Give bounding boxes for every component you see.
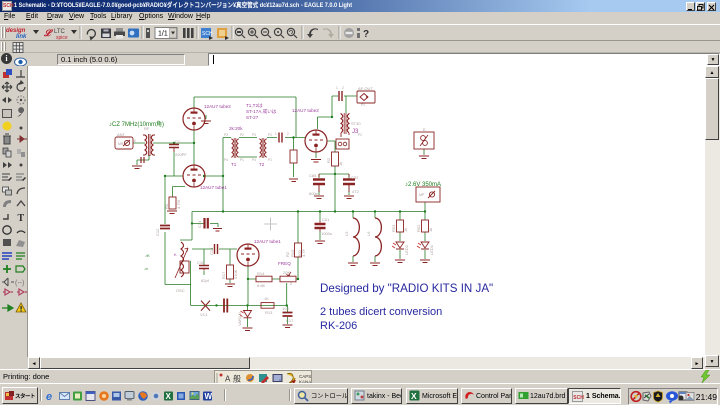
- svg-text:VAR1.0: VAR1.0: [237, 312, 242, 326]
- svg-text:2: 2: [342, 86, 344, 90]
- svg-text:C17: C17: [286, 318, 294, 323]
- svg-text:X: X: [411, 391, 417, 401]
- svg-text:P2: P2: [268, 133, 272, 137]
- svg-text:C51: C51: [322, 217, 330, 222]
- svg-text:1k: 1k: [428, 228, 433, 232]
- svg-text:MR: MR: [118, 142, 124, 146]
- svg-text:link: link: [16, 34, 27, 40]
- svg-text:K: K: [174, 252, 177, 257]
- svg-text:L6: L6: [366, 231, 371, 236]
- svg-text:OSC: OSC: [176, 288, 185, 293]
- svg-text:12AU7 tube1: 12AU7 tube1: [254, 239, 281, 244]
- svg-text:1: 1: [275, 132, 277, 136]
- svg-text:472: 472: [352, 189, 359, 194]
- svg-text:R13: R13: [265, 310, 273, 315]
- svg-text:P1: P1: [268, 158, 272, 162]
- svg-text:?: ?: [363, 29, 369, 40]
- svg-text:2: 2: [287, 132, 289, 136]
- svg-text:♪2.6V 350mA: ♪2.6V 350mA: [405, 182, 441, 188]
- svg-text:♪K: ♪K: [145, 253, 150, 258]
- svg-text:600p: 600p: [309, 191, 319, 196]
- svg-text:R17: R17: [221, 271, 226, 279]
- svg-text:C14: C14: [209, 247, 214, 255]
- svg-text:R52: R52: [416, 224, 421, 232]
- svg-text:R53: R53: [391, 224, 396, 232]
- svg-text:12AU7 tube1: 12AU7 tube1: [200, 185, 227, 190]
- svg-text:P3: P3: [224, 133, 228, 137]
- svg-text:T2: T2: [259, 162, 265, 167]
- svg-text:T: T: [18, 213, 25, 224]
- svg-text:P3: P3: [252, 133, 256, 137]
- svg-text:C1: C1: [175, 139, 181, 144]
- svg-text:P2: P2: [358, 133, 362, 137]
- svg-text:LED2: LED2: [404, 244, 409, 255]
- svg-text:R2: R2: [326, 157, 331, 163]
- svg-text:510K: 510K: [233, 269, 238, 279]
- svg-text:C16: C16: [197, 260, 205, 265]
- svg-text:4.7F: 4.7F: [301, 248, 306, 257]
- svg-text:CAPS: CAPS: [299, 374, 311, 379]
- svg-text:12AU7 tube2: 12AU7 tube2: [204, 104, 231, 109]
- svg-text:C13: C13: [197, 220, 202, 228]
- svg-text:SCH: SCH: [573, 395, 584, 401]
- svg-text:1k: 1k: [403, 228, 408, 232]
- svg-text:ST30: ST30: [351, 121, 361, 126]
- svg-text:(--): (--): [15, 280, 24, 287]
- svg-text:AF-OUT: AF-OUT: [358, 86, 373, 91]
- svg-text:RF: RF: [144, 126, 150, 131]
- svg-text:20K: 20K: [283, 270, 290, 275]
- svg-text:P4: P4: [252, 158, 256, 162]
- svg-text:♪CZ 7MHz(10mm角): ♪CZ 7MHz(10mm角): [109, 120, 164, 128]
- svg-text:4.7M: 4.7M: [176, 200, 181, 209]
- svg-text:2k:20k: 2k:20k: [229, 126, 243, 131]
- svg-text:12AU7 tube2: 12AU7 tube2: [292, 108, 319, 113]
- svg-text:ANT: ANT: [117, 132, 126, 137]
- svg-text:1/1: 1/1: [158, 31, 168, 38]
- svg-text:SCH: SCH: [202, 31, 213, 37]
- svg-text:X: X: [166, 392, 172, 401]
- svg-text:W: W: [205, 392, 213, 401]
- svg-text:RK-206: RK-206: [320, 320, 357, 332]
- svg-text:P2: P2: [240, 133, 244, 137]
- svg-text:e: e: [46, 391, 52, 403]
- svg-text:6: 6: [134, 139, 136, 143]
- svg-text:R19: R19: [290, 249, 295, 257]
- svg-text:LED1: LED1: [429, 244, 434, 255]
- svg-text:ST-17A,或いは: ST-17A,或いは: [246, 108, 277, 115]
- svg-text:C65: C65: [309, 173, 317, 178]
- svg-text:P1: P1: [240, 158, 244, 162]
- svg-text:般: 般: [233, 374, 241, 384]
- svg-text:1k: 1k: [338, 162, 343, 166]
- svg-text:𝓛: 𝓛: [43, 28, 54, 38]
- svg-text:R14: R14: [257, 271, 265, 276]
- svg-text:1: 1: [336, 86, 338, 90]
- svg-text:R1: R1: [164, 203, 169, 209]
- svg-text:VC1: VC1: [200, 312, 209, 317]
- svg-text:MP: MP: [419, 193, 425, 197]
- svg-text:Designed by "RADIO KITS IN JA: Designed by "RADIO KITS IN JA": [320, 282, 493, 295]
- svg-text:C12: C12: [155, 228, 160, 236]
- svg-text:♪v: ♪v: [144, 266, 148, 271]
- svg-text:C52: C52: [351, 175, 359, 180]
- svg-text:2 tubes dicert conversion: 2 tubes dicert conversion: [320, 306, 442, 318]
- svg-text:6.6K: 6.6K: [257, 283, 266, 288]
- svg-text:FREQ: FREQ: [278, 261, 291, 266]
- svg-text:103: 103: [282, 306, 289, 311]
- svg-text:T1: T1: [231, 162, 237, 167]
- svg-text:220PF: 220PF: [175, 152, 187, 157]
- svg-text:21:49: 21:49: [696, 392, 717, 402]
- svg-text:E: E: [423, 127, 426, 132]
- svg-text:L5: L5: [344, 231, 349, 236]
- svg-text:P4: P4: [224, 158, 228, 162]
- svg-text:P1: P1: [361, 103, 365, 107]
- svg-text:1K: 1K: [264, 296, 269, 301]
- svg-text:ST-27: ST-27: [246, 115, 259, 120]
- svg-text:1000u: 1000u: [321, 231, 332, 236]
- svg-text:82pf: 82pf: [201, 278, 210, 283]
